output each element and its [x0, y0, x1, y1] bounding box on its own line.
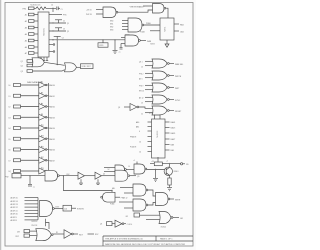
bottom left OR gate G7 — [32, 221, 38, 227]
svg-text:RA3/7: RA3/7 — [171, 138, 176, 141]
svg-text:+5: +5 — [133, 160, 135, 162]
svg-text:A7: A7 — [25, 52, 27, 55]
svg-text:PRAS E: PRAS E — [130, 136, 137, 139]
node PH0 input pin — [23, 8, 27, 10]
svg-text:PH2: PH2 — [5, 177, 9, 179]
wire base — [147, 169, 166, 171]
svg-text:PH1 28: PH1 28 — [32, 225, 38, 227]
svg-text:RAM SEL: RAM SEL — [175, 63, 183, 66]
gate RG1 — [139, 62, 143, 69]
svg-text:C4: C4 — [62, 37, 64, 39]
buffer row 1 (D0) — [9, 82, 56, 87]
svg-text:10: 10 — [139, 142, 141, 144]
left RAM buffer column — [27, 81, 42, 84]
svg-text:RA1/5: RA1/5 — [171, 127, 176, 130]
svg-text:PH1 2: PH1 2 — [139, 74, 144, 76]
buffer row 4 (D3) — [9, 114, 56, 119]
gate GE2 NAND video — [136, 162, 138, 165]
svg-text:PCAS E: PCAS E — [130, 146, 137, 149]
svg-text:PH1: PH1 — [63, 15, 67, 17]
svg-text:ADDR 9: ADDR 9 — [11, 216, 17, 219]
gate RG2 — [139, 74, 144, 81]
gate RG4 — [139, 97, 143, 105]
gate GC 4-input NAND — [110, 21, 113, 32]
wire collector to rail — [169, 164, 171, 168]
svg-text:ADDR 14: ADDR 14 — [11, 200, 18, 203]
capacitor C3 stub — [49, 30, 66, 32]
scan left edge — [0, 0, 2, 250]
svg-text:14: 14 — [139, 152, 141, 154]
capacitor C6 — [29, 176, 31, 184]
svg-text:THE APPLE II SYSTEM SCHEMATIC: THE APPLE II SYSTEM SCHEMATIC 00 — [105, 238, 144, 241]
svg-text:C04: C04 — [64, 208, 67, 210]
schmitt buffer S2 — [95, 172, 102, 179]
wire G2 out — [44, 62, 64, 65]
U3 right pins — [165, 121, 170, 123]
svg-text:D7: D7 — [9, 160, 11, 162]
+5V rail — [150, 163, 181, 165]
svg-text:COPYRIGHT 1979 APPLE COMPUTER: COPYRIGHT 1979 APPLE COMPUTER — [148, 243, 186, 246]
svg-text:D4: D4 — [9, 128, 11, 130]
svg-text:14: 14 — [51, 4, 53, 6]
svg-text:MX3: MX3 — [110, 30, 113, 32]
U1 bottom pins to ground — [40, 57, 42, 61]
resistor R3 in PH0 line — [34, 7, 56, 10]
wire long lower — [63, 176, 112, 191]
IC U1 74LS161 timing counter — [38, 12, 49, 57]
svg-text:ADDR 11: ADDR 11 — [11, 209, 18, 212]
svg-text:VIDEO: VIDEO — [174, 171, 180, 173]
node PCAS input — [140, 30, 145, 33]
svg-text:74S74: 74S74 — [150, 44, 155, 46]
gate GG NAND — [110, 202, 114, 205]
svg-text:D2: D2 — [9, 107, 11, 109]
svg-text:RAS: RAS — [147, 40, 152, 43]
bus rail A — [38, 83, 40, 171]
svg-text:C2: C2 — [63, 21, 65, 23]
svg-text:SYNC RST: SYNC RST — [82, 66, 92, 68]
gate GF NAND — [112, 188, 115, 190]
gate GB NAND — [153, 4, 165, 14]
gate G5 NAND — [115, 170, 128, 181]
gate GE1 NAND video — [108, 169, 111, 171]
gate GD NAND RAS — [121, 37, 125, 39]
wire U2 out CAS — [174, 30, 179, 32]
wire PH2 to G4 — [21, 175, 45, 177]
svg-text:ADDR 10: ADDR 10 — [11, 213, 18, 216]
IC U2 74S74 — [160, 18, 174, 40]
title block text — [105, 238, 186, 246]
svg-text:D3: D3 — [9, 117, 11, 119]
svg-text:A5: A5 — [25, 40, 27, 43]
svg-text:RA2/6: RA2/6 — [171, 132, 176, 135]
svg-text:RA9: RA9 — [171, 149, 174, 152]
svg-text:Q3: Q3 — [118, 107, 120, 109]
node SYNC label box — [77, 66, 81, 68]
bus rail B — [48, 83, 50, 171]
U3 left pins — [130, 121, 141, 154]
gate G6 8-input NAND — [40, 201, 53, 217]
ground on RAS wire — [114, 39, 115, 40]
svg-text:HBL: HBL — [112, 188, 115, 190]
svg-text:Q1: Q1 — [21, 61, 23, 63]
bottom mid inverter row — [100, 224, 102, 226]
svg-text:A2: A2 — [25, 20, 27, 23]
gate G4 NAND — [45, 170, 58, 181]
buffer row 6 (D5) — [9, 136, 56, 141]
svg-text:PH2 1K: PH2 1K — [86, 14, 93, 16]
svg-text:74LS02: 74LS02 — [161, 226, 167, 228]
svg-text:ADDR 15: ADDR 15 — [11, 197, 18, 200]
resistor R2 emitter — [169, 175, 171, 178]
transistor Q1 — [164, 167, 172, 175]
svg-text:Q2: Q2 — [21, 66, 23, 68]
svg-text:ROM EN: ROM EN — [77, 209, 85, 211]
svg-text:Q3 1: Q3 1 — [139, 62, 143, 64]
gate GA NAND pullup — [86, 10, 93, 17]
svg-text:Q5: Q5 — [137, 176, 139, 178]
svg-text:74LS153: 74LS153 — [157, 131, 159, 138]
svg-text:PH1 9: PH1 9 — [139, 86, 144, 88]
svg-text:13: 13 — [141, 103, 143, 105]
svg-text:MX0: MX0 — [110, 21, 113, 23]
buffer row 9 (DQ) — [9, 168, 57, 173]
node PH2 pin — [5, 177, 9, 179]
svg-text:+5: +5 — [166, 161, 168, 163]
node VID out circle — [181, 163, 183, 165]
svg-text:74LS161: 74LS161 — [44, 27, 46, 36]
svg-text:D5: D5 — [9, 139, 11, 141]
svg-text:D1: D1 — [9, 96, 11, 98]
svg-text:MX1: MX1 — [110, 24, 113, 26]
ground below base wire — [155, 170, 157, 179]
svg-text:ADDR 12: ADDR 12 — [11, 206, 18, 209]
svg-text:D6: D6 — [9, 150, 11, 152]
svg-text:ADDR 8: ADDR 8 — [11, 219, 17, 222]
svg-text:AB1: AB1 — [136, 126, 139, 129]
svg-text:RESET: RESET — [175, 111, 182, 113]
gate GI NOR bottom right — [126, 216, 129, 218]
gate GH NAND combine — [156, 193, 169, 206]
svg-text:CLK 14: CLK 14 — [127, 224, 132, 226]
buffer row 2 (D1) — [9, 93, 56, 98]
svg-text:A4: A4 — [25, 33, 27, 36]
node label box ROM — [63, 205, 72, 211]
svg-text:AB0: AB0 — [136, 121, 139, 124]
buffer row 5 (D4) — [9, 125, 56, 130]
svg-text:14: 14 — [141, 67, 143, 69]
svg-text:RA8: RA8 — [171, 144, 174, 147]
svg-text:* WRITE ENABLE *: * WRITE ENABLE * — [129, 5, 145, 8]
U1 lower right pins — [49, 44, 53, 46]
svg-text:+5V 1K: +5V 1K — [86, 10, 92, 12]
node label box under RAS wire — [102, 39, 103, 40]
ground under R2 — [169, 185, 171, 187]
svg-text:SERR: SERR — [175, 200, 181, 202]
svg-text:ADDR 13: ADDR 13 — [11, 203, 18, 206]
svg-text:PH0: PH0 — [23, 8, 27, 10]
wire RAS line from U1 — [49, 39, 125, 41]
svg-text:Q2: Q2 — [67, 31, 69, 33]
svg-text:PH2: PH2 — [67, 174, 70, 176]
buffer row 7 (D6) — [9, 146, 56, 151]
U1 left input pins — [25, 14, 27, 56]
inverter T1 — [64, 230, 72, 239]
wire GE1 to GE2 — [126, 169, 134, 171]
wire GB out to U2 — [166, 8, 168, 18]
svg-text:RA0/4: RA0/4 — [171, 121, 176, 124]
svg-text:R1: R1 — [56, 232, 58, 234]
wire vertical to gate G3 — [56, 40, 58, 65]
gate RG3 — [139, 86, 144, 93]
wire GA out to GB — [118, 10, 153, 12]
capacitor C2 stub — [49, 22, 66, 24]
wire GC out PRAS — [144, 24, 160, 26]
svg-text:SYNC: SYNC — [175, 100, 181, 102]
svg-text:Q4: Q4 — [103, 174, 105, 176]
svg-text:A3: A3 — [25, 27, 27, 30]
svg-text:RW 10: RW 10 — [139, 91, 144, 93]
gate G3 NOR — [65, 63, 77, 72]
title block — [103, 236, 193, 246]
resistor R1 — [154, 162, 162, 166]
wire U3 to +5V rail — [157, 157, 159, 162]
svg-text:C1: C1 — [61, 9, 63, 11]
svg-text:R/W 30: R/W 30 — [32, 221, 38, 223]
buffer row 8 (D7) — [9, 157, 56, 162]
svg-text:Q6: Q6 — [100, 224, 102, 226]
capacitor C4 stub — [52, 39, 53, 40]
svg-text:6: 6 — [139, 131, 140, 133]
svg-text:74S74: 74S74 — [165, 27, 167, 32]
wire GB in1 — [143, 5, 153, 7]
svg-text:D0: D0 — [9, 85, 11, 87]
schmitt buffer S1 — [78, 172, 85, 179]
gate RG5 — [141, 114, 143, 116]
svg-text:C3: C3 — [63, 29, 65, 31]
svg-text:Q1: Q1 — [67, 23, 69, 25]
svg-text:A1: A1 — [25, 14, 27, 17]
inverter TI — [118, 107, 120, 109]
wire U2 out RAS — [174, 23, 179, 25]
ADDR decoder rows — [11, 197, 18, 222]
svg-text:14: 14 — [128, 166, 130, 168]
page border frame — [5, 3, 193, 247]
IC U3 74LS153 — [149, 112, 153, 115]
svg-text:MX2: MX2 — [110, 27, 113, 29]
ground below U2 — [166, 40, 168, 44]
svg-text:74LS161 CLK: 74LS161 CLK — [30, 4, 41, 6]
gate G2 NOR — [21, 61, 23, 73]
svg-text:10: 10 — [141, 114, 143, 116]
svg-text:WRITE: WRITE — [175, 76, 182, 78]
svg-text:RAM ROM CELL ADDRESS DECODE LO: RAM ROM CELL ADDRESS DECODE LOGIC — [105, 243, 148, 246]
svg-text:Q3: Q3 — [21, 71, 23, 73]
gate LG left pointing — [103, 192, 116, 202]
svg-text:PAGE 1 OF 1: PAGE 1 OF 1 — [160, 238, 173, 241]
capacitor C5 — [120, 44, 122, 48]
buffer row 3 (D2) — [9, 103, 56, 108]
U1 output Q0 wire — [49, 14, 62, 16]
svg-text:A6: A6 — [25, 46, 27, 49]
bus vertical — [37, 198, 39, 220]
capacitor C1 — [56, 7, 58, 11]
